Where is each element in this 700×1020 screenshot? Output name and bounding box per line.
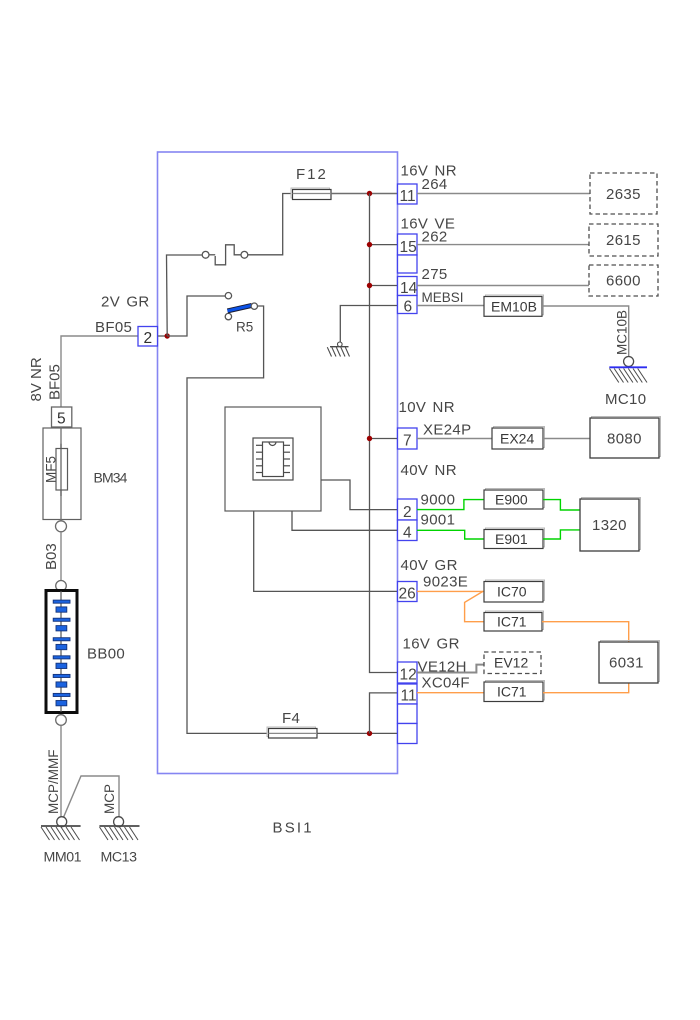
- battery cell plates: [53, 600, 70, 706]
- svg-text:9001: 9001: [421, 512, 456, 529]
- wire: EX24 to 8080: [543, 438, 590, 440]
- svg-text:BB00: BB00: [87, 646, 125, 663]
- wire: EM10B to ground MC10: [542, 306, 629, 356]
- connector IC71 lower: [484, 681, 545, 702]
- wire: junction to relay R5: [167, 296, 225, 336]
- svg-text:EX24: EX24: [500, 431, 534, 447]
- svg-text:MC13: MC13: [101, 850, 138, 866]
- svg-text:14: 14: [400, 280, 418, 297]
- wire: junction up to ignition contact: [167, 255, 203, 336]
- left pin 2 box (BF05): [138, 327, 158, 347]
- svg-text:11: 11: [400, 188, 416, 205]
- BSI1 control unit outline: [158, 152, 398, 774]
- wire: E900 to 1320 (green): [543, 500, 580, 510]
- connector EX24: [492, 427, 545, 450]
- wire: pin 11 to 2635: [417, 193, 590, 195]
- svg-text:MEBSI: MEBSI: [422, 290, 464, 305]
- svg-text:275: 275: [422, 266, 448, 283]
- svg-text:F12: F12: [296, 166, 328, 183]
- pin 5 connector box: [52, 407, 72, 427]
- connector IC71 upper: [484, 611, 544, 631]
- wire MCP/MMF battery to ground MM01: [60, 725, 62, 816]
- wire: pin 2 to E900 (green): [417, 500, 484, 510]
- ignition switch contact: [202, 245, 248, 265]
- equipment 1320: [580, 498, 641, 552]
- wire: BF05 from pin 2 left then down to pin 5: [61, 336, 138, 408]
- svg-text:12: 12: [400, 667, 417, 684]
- connector EM10B: [484, 295, 544, 316]
- svg-text:IC71: IC71: [497, 684, 527, 700]
- svg-text:MC10B: MC10B: [615, 310, 630, 355]
- wire: bus stub to pin 7: [370, 438, 398, 440]
- svg-text:BM34: BM34: [94, 470, 128, 486]
- wire: IC71 to 6031 (orange): [542, 622, 629, 642]
- svg-text:2V GR: 2V GR: [101, 294, 150, 311]
- pin 11 (XC04F): [398, 684, 418, 704]
- svg-text:MCP/MMF: MCP/MMF: [46, 750, 61, 815]
- pin 4 (9001): [398, 520, 418, 541]
- node red dot pin14: [367, 283, 372, 288]
- wire branch to ground MC13: [64, 776, 120, 817]
- node A junction red dot: [165, 333, 170, 338]
- pin 11 (264): [398, 184, 418, 204]
- svg-text:XE24P: XE24P: [423, 422, 471, 439]
- svg-text:BF05: BF05: [95, 319, 132, 336]
- wire: pin 15 to 2615: [417, 244, 589, 246]
- ground MC13: [99, 817, 139, 840]
- svg-text:IC70: IC70: [497, 584, 527, 600]
- wire: IC71 lower to 6031 (orange): [543, 683, 629, 693]
- pin 12 (VE12H): [398, 662, 418, 683]
- connector EV12 (dashed): [484, 652, 541, 674]
- wire: E901 to 1320 (green): [543, 530, 580, 539]
- node circle above battery: [56, 581, 67, 592]
- svg-text:MM01: MM01: [44, 850, 82, 866]
- svg-text:EV12: EV12: [494, 655, 528, 671]
- wire: F12 to pin 11: [331, 193, 398, 195]
- wire: module to pin 26: [254, 511, 398, 591]
- equipment 2635 (dashed): [590, 173, 657, 214]
- connector IC70: [484, 580, 545, 602]
- svg-text:15: 15: [400, 239, 417, 256]
- svg-text:6031: 6031: [609, 655, 644, 672]
- wire: pin 14 to 6600: [417, 285, 589, 287]
- wire: junction node A to left pin 2 (BF05): [138, 335, 167, 337]
- ground MC10: [609, 357, 647, 383]
- svg-text:8V NR: 8V NR: [28, 357, 45, 401]
- svg-text:R5: R5: [236, 320, 253, 335]
- pin 7 (XE24P): [398, 428, 418, 449]
- svg-text:9023E: 9023E: [423, 574, 468, 591]
- svg-text:B03: B03: [43, 543, 60, 570]
- relay switch R5: [225, 293, 257, 335]
- ground MM01: [41, 817, 81, 840]
- fuse MF5 element: [56, 449, 68, 491]
- pin 26 (9023E): [398, 582, 418, 602]
- svg-text:XC04F: XC04F: [422, 675, 470, 692]
- wire: pin 6 to EM10B: [417, 305, 484, 307]
- wire: pin 11 to IC71 lower (orange): [417, 692, 484, 694]
- pin spare box: [398, 724, 418, 744]
- svg-text:MC10: MC10: [605, 391, 646, 408]
- wire: bus stub to pin 15: [370, 244, 398, 246]
- wire: pin 7 to EX24: [417, 438, 492, 440]
- node circle below BM34: [56, 521, 67, 532]
- wire: contact to fuse F12: [248, 194, 292, 255]
- equipment 6600 (dashed): [589, 265, 658, 296]
- node circle below battery: [56, 715, 67, 726]
- svg-text:262: 262: [422, 229, 448, 246]
- node red dot pin7: [367, 436, 372, 441]
- equipment 6031: [599, 641, 660, 684]
- node red dot F4 junction: [367, 731, 372, 736]
- wire: bus stub to pin 14: [370, 285, 398, 287]
- pin 14 (275): [398, 277, 418, 296]
- wire: pin 12 to EV12: [417, 665, 484, 673]
- wire: MEBSI pin 6 to internal ground: [340, 306, 397, 343]
- svg-text:4: 4: [403, 525, 412, 542]
- pin 6 (MEBSI): [398, 296, 418, 314]
- equipment 2615 (dashed): [589, 224, 658, 256]
- svg-text:2615: 2615: [606, 232, 641, 249]
- svg-text:40V NR: 40V NR: [401, 462, 457, 479]
- right pin connector column: [398, 184, 418, 744]
- wire B03: [60, 532, 62, 581]
- fuse holder BM34 outline: [43, 428, 81, 520]
- node red dot F12 junction: [367, 191, 372, 196]
- wire: F4 to bottom pin: [317, 732, 398, 734]
- connector E900: [484, 489, 545, 510]
- wire: main vertical bus inside BSI: [370, 194, 398, 673]
- svg-text:E900: E900: [495, 492, 528, 508]
- ground MEBSI internal: [327, 342, 349, 357]
- svg-text:6600: 6600: [606, 273, 641, 290]
- svg-text:26: 26: [399, 586, 416, 603]
- svg-text:8080: 8080: [607, 431, 642, 448]
- svg-text:F4: F4: [282, 710, 300, 727]
- wire through fuse MF5: [60, 427, 62, 521]
- fuse F12: [291, 188, 331, 200]
- pin spare box: [398, 704, 418, 724]
- svg-text:IC71: IC71: [497, 614, 527, 630]
- wire: orange branch to IC71: [465, 591, 484, 621]
- svg-text:BSI1: BSI1: [273, 820, 314, 837]
- battery BB00: [46, 591, 77, 713]
- equipment 8080: [590, 417, 661, 459]
- svg-text:2: 2: [403, 504, 412, 521]
- node red dot pin15: [367, 242, 372, 247]
- inner module box: [225, 407, 321, 511]
- wire: pin 4 to E901 (green): [417, 530, 484, 539]
- svg-text:EM10B: EM10B: [491, 299, 537, 315]
- svg-text:11: 11: [401, 688, 417, 705]
- wire: module to pin 2: [321, 480, 398, 510]
- pin numbers: [399, 188, 418, 705]
- svg-text:7: 7: [403, 433, 412, 450]
- svg-text:E901: E901: [495, 531, 528, 547]
- svg-text:1320: 1320: [592, 517, 627, 534]
- svg-text:MCP: MCP: [102, 784, 117, 814]
- svg-text:MF5: MF5: [44, 456, 59, 483]
- pin spare box: [398, 255, 418, 273]
- svg-text:BF05: BF05: [47, 364, 64, 400]
- svg-text:2: 2: [144, 330, 153, 347]
- connector E901: [484, 528, 545, 549]
- pin 2 (9000): [398, 499, 418, 520]
- wire: R5 down to fuse F4: [187, 306, 268, 733]
- svg-text:6: 6: [404, 299, 413, 316]
- svg-text:9000: 9000: [421, 492, 456, 509]
- svg-text:40V GR: 40V GR: [401, 557, 458, 574]
- svg-text:16V GR: 16V GR: [403, 636, 460, 653]
- microcontroller chip U1: [253, 438, 293, 480]
- svg-text:5: 5: [57, 411, 66, 428]
- svg-text:2635: 2635: [606, 186, 641, 203]
- wire: bus to pin 11 XC04F: [370, 693, 398, 734]
- wire: module to pin 4: [292, 511, 398, 530]
- fuse F4: [267, 727, 317, 738]
- wire: pin 26 to IC70 (orange): [417, 590, 484, 592]
- svg-text:264: 264: [422, 176, 448, 193]
- svg-text:10V NR: 10V NR: [399, 399, 455, 416]
- pin 15 (262): [398, 234, 418, 255]
